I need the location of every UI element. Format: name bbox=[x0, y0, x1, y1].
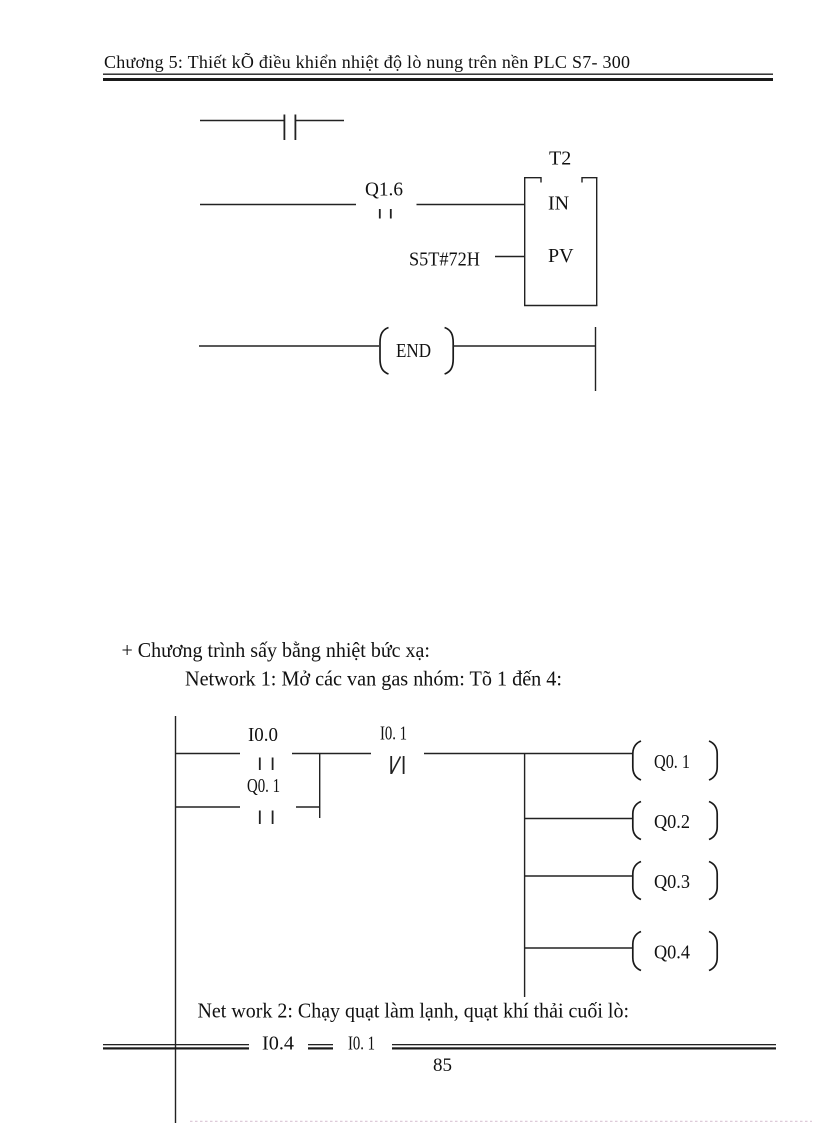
wire rung Q0.3 bbox=[524, 875, 633, 877]
junction branch vertical bbox=[319, 754, 321, 819]
contact (unnamed) right bar bbox=[294, 115, 296, 141]
svg-text:Q0.4: Q0.4 bbox=[654, 942, 690, 964]
svg-text:Network 1: Mở các van gas nhóm: Network 1: Mở các van gas nhóm: Tõ 1 đến… bbox=[185, 667, 562, 691]
timer U1 box bottom edge bbox=[524, 305, 597, 307]
contact Q0.1 right bar bbox=[272, 811, 274, 825]
contact Q1.6 left bar bbox=[379, 209, 381, 219]
wire END rung right bbox=[453, 345, 595, 347]
contact I0.1 NC left bar bbox=[390, 756, 392, 774]
timer U1 box top-left segment bbox=[524, 178, 541, 183]
coil Q0.3 left paren bbox=[633, 862, 641, 900]
svg-text:Q0.2: Q0.2 bbox=[654, 811, 690, 833]
svg-text:Q0. 1: Q0. 1 bbox=[247, 775, 280, 797]
wire rung1 middle bbox=[292, 753, 371, 755]
footer rule thick segment left bbox=[103, 1047, 249, 1049]
svg-text:+ Chương trình sấy bằng nhiệt: + Chương trình sấy bằng nhiệt bức xạ: bbox=[122, 638, 431, 662]
footer rule thick segment right bbox=[392, 1047, 776, 1049]
contact I0.4 double segment thick bbox=[308, 1047, 333, 1049]
coil END right paren bbox=[445, 328, 454, 375]
timer U1 box right edge bbox=[596, 177, 598, 306]
footer rule thin segment left bbox=[103, 1044, 249, 1045]
contact I0.4 double segment thin bbox=[308, 1044, 333, 1045]
branch rail vertical bbox=[524, 754, 526, 998]
wire rung B right to timer bbox=[417, 204, 525, 206]
wire rung2 from rail bbox=[175, 806, 240, 808]
wire rung Q0.2 bbox=[524, 818, 633, 820]
left power rail network 1 bbox=[175, 716, 177, 1123]
wire rung1 from rail bbox=[175, 753, 240, 755]
wire END rung left bbox=[199, 345, 379, 347]
svg-text:Net work 2: Chạy quạt làm lạnh: Net work 2: Chạy quạt làm lạnh, quạt khí… bbox=[198, 999, 630, 1023]
header underline bbox=[103, 74, 773, 75]
contact I0.1 NC right bar bbox=[403, 756, 405, 774]
wire rung A left bbox=[200, 120, 284, 122]
coil Q0.2 right paren bbox=[709, 802, 717, 840]
svg-text:I0. 1: I0. 1 bbox=[348, 1033, 375, 1055]
footer rule thin segment right bbox=[392, 1044, 776, 1045]
coil Q0.1 right paren bbox=[709, 741, 717, 780]
contact (unnamed) left bar bbox=[283, 115, 285, 141]
svg-text:I0.4: I0.4 bbox=[262, 1033, 294, 1055]
svg-text:85: 85 bbox=[433, 1055, 452, 1076]
svg-text:Q1.6: Q1.6 bbox=[365, 179, 403, 201]
coil Q0.4 right paren bbox=[709, 932, 717, 971]
coil END left paren bbox=[380, 328, 389, 375]
header thick rule bbox=[103, 78, 773, 81]
contact Q1.6 right bar bbox=[390, 209, 392, 219]
timer U1 box left edge bbox=[524, 177, 526, 306]
wire rung A right bbox=[296, 120, 344, 122]
svg-text:END: END bbox=[396, 340, 431, 362]
wire PV input bbox=[495, 256, 524, 258]
svg-text:Chương 5: Thiết kÕ điều khiển: Chương 5: Thiết kÕ điều khiển nhiệt độ l… bbox=[104, 51, 630, 72]
svg-text:Q0. 1: Q0. 1 bbox=[654, 751, 690, 773]
wire rung Q0.4 bbox=[524, 947, 633, 949]
svg-text:IN: IN bbox=[548, 193, 569, 215]
coil Q0.1 left paren bbox=[633, 741, 641, 780]
wire rung2 right bbox=[296, 806, 320, 808]
wire rung B left bbox=[200, 204, 356, 206]
svg-text:S5T#72H: S5T#72H bbox=[409, 249, 480, 271]
bottom scan dotted line bbox=[190, 1120, 812, 1122]
svg-text:Q0.3: Q0.3 bbox=[654, 871, 690, 893]
contact I0.0 left bar bbox=[259, 758, 261, 771]
right rail top network bbox=[595, 327, 597, 391]
timer U1 box top-right segment bbox=[582, 178, 597, 183]
contact I0.0 right bar bbox=[272, 758, 274, 771]
svg-text:I0.0: I0.0 bbox=[248, 724, 278, 746]
coil Q0.2 left paren bbox=[633, 802, 641, 840]
contact I0.1 NC slash bbox=[392, 757, 401, 774]
svg-text:T2: T2 bbox=[549, 148, 571, 170]
svg-text:I0. 1: I0. 1 bbox=[380, 723, 407, 745]
coil Q0.3 right paren bbox=[709, 862, 717, 900]
svg-text:PV: PV bbox=[548, 245, 574, 267]
contact Q0.1 left bar bbox=[259, 811, 261, 825]
wire rung1 right bbox=[424, 753, 633, 755]
coil Q0.4 left paren bbox=[633, 932, 641, 971]
